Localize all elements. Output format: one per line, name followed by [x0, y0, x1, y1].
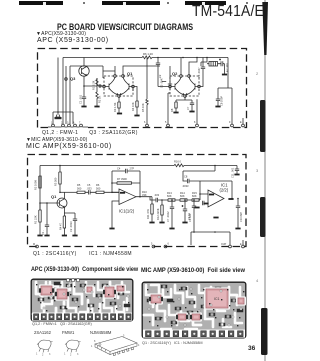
capacitor C5 [156, 58, 169, 89]
svg-text:R5: R5 [77, 183, 81, 187]
pcb component footprints [38, 298, 44, 301]
svg-text:R6: R6 [96, 183, 100, 187]
resistor R13 [167, 191, 175, 201]
transistor Q1 [40, 192, 67, 213]
svg-text:(2/2): (2/2) [220, 188, 229, 193]
resistor R3 [113, 97, 120, 113]
resistor R7 [117, 177, 132, 184]
svg-text:82K: 82K [192, 194, 197, 198]
node A [83, 85, 85, 87]
svg-text:3: 3 [77, 353, 79, 356]
svg-text:.0033: .0033 [182, 184, 189, 188]
APC transistor note [42, 130, 138, 136]
APC pcb component side view [30, 278, 134, 322]
connector pins row 2 [144, 121, 244, 127]
svg-text:R1 22K: R1 22K [34, 215, 38, 224]
svg-text:1: 1 [91, 345, 93, 348]
svg-text:C2 .0033: C2 .0033 [69, 221, 73, 232]
resistor R4 [131, 98, 138, 115]
ground [173, 112, 178, 114]
wire top bus [40, 165, 237, 167]
MIC AMP labels [26, 137, 87, 143]
svg-text:R2 100K: R2 100K [34, 180, 38, 190]
capacitor C2 [69, 213, 77, 235]
captions under pcbs [32, 322, 92, 326]
wire emitter [64, 213, 75, 216]
svg-text:.033: .033 [154, 193, 160, 197]
ground [169, 228, 174, 230]
APC dashed border [38, 49, 247, 128]
node rail [214, 231, 216, 233]
ground [222, 74, 227, 76]
ground [159, 222, 164, 224]
ground [81, 106, 86, 108]
ground [194, 207, 199, 209]
MIC AMP dashed border [28, 155, 247, 247]
node B [157, 57, 159, 59]
ground [213, 217, 218, 219]
ground [117, 113, 122, 115]
pcb edge connector pads [143, 330, 245, 338]
svg-text:1: 1 [64, 353, 66, 356]
connector pin M [33, 243, 38, 248]
wire left vertical [39, 166, 41, 211]
ground [215, 106, 220, 108]
wire inv input ic2 [200, 181, 208, 200]
junction pin [99, 85, 101, 87]
MIC AMP pcb foil side view [141, 281, 247, 339]
dual transistor Q2 [169, 75, 201, 98]
resistor R3 [54, 166, 62, 193]
wire q2 top feeds [181, 58, 207, 75]
ground [182, 222, 187, 224]
capacitor C7 [166, 199, 174, 228]
wire noninv down [112, 192, 119, 228]
pcb board outline [142, 282, 246, 338]
svg-text:33K: 33K [142, 193, 147, 197]
connector pins row 1 [48, 122, 88, 128]
svg-text:.033: .033 [87, 187, 93, 191]
wire q1 outer legs [133, 87, 137, 99]
node collector [59, 192, 61, 194]
capacitor C1 [41, 202, 49, 235]
svg-text:6: 6 [168, 243, 170, 246]
ground [134, 115, 139, 117]
svg-text:5: 5 [123, 335, 125, 338]
section heading [57, 22, 193, 32]
pcb board outline [31, 279, 133, 321]
op-amp IC1 (2/2) [208, 190, 224, 207]
capacitor C10 [236, 198, 243, 228]
model name TM-541A/E [192, 3, 264, 21]
capacitor C2 [158, 66, 172, 90]
ground [62, 235, 67, 237]
inductor L1 [207, 62, 220, 67]
node bus2 [214, 165, 216, 167]
wire mid verticals [58, 58, 66, 125]
wire left verticals to connector [63, 58, 103, 125]
resistor R2 [34, 176, 42, 190]
resistor R1 [92, 78, 99, 90]
resistor R16 [173, 160, 187, 167]
svg-text:C1 -: C1 - [41, 230, 45, 235]
svg-text:R7 390K: R7 390K [117, 177, 127, 181]
svg-text:C8: C8 [184, 175, 188, 179]
node bus-R3 [59, 165, 61, 167]
label R10 33K [142, 190, 147, 197]
svg-text:560: 560 [96, 187, 101, 191]
ground tap box [53, 111, 73, 124]
svg-text:C9 82P: C9 82P [188, 213, 192, 222]
ground [94, 106, 99, 108]
transistor Q3 [79, 66, 89, 76]
ground [37, 235, 42, 237]
dual transistor Q1 [103, 75, 135, 98]
svg-text:C7 .0022: C7 .0022 [166, 211, 170, 222]
wire top bus [63, 57, 228, 59]
svg-text:C4: C4 [117, 167, 121, 171]
package drawings [30, 334, 145, 360]
resistor R5 [77, 183, 89, 194]
wire ground rail bottom [191, 232, 230, 245]
resistor R4 [59, 216, 66, 235]
capacitor C8 [182, 171, 200, 188]
svg-text:82K: 82K [180, 194, 185, 198]
resistor R15 [187, 191, 200, 201]
APC labels [36, 31, 86, 37]
PCB section titles [31, 266, 138, 273]
svg-text:R4 47: R4 47 [59, 223, 63, 230]
resistor R14 [175, 191, 187, 201]
svg-text:R12 220K: R12 220K [156, 208, 160, 220]
capacitor C9 [188, 199, 196, 232]
svg-text:C10 82P: C10 82P [239, 212, 243, 222]
label IC1(2/2) [220, 183, 229, 193]
ground [189, 111, 194, 113]
node C [182, 57, 184, 59]
svg-text:IC1(1/2): IC1(1/2) [119, 209, 135, 214]
svg-text:2: 2 [42, 354, 44, 357]
capacitor C3 electrolytic [182, 199, 192, 222]
svg-text:4: 4 [138, 344, 140, 347]
top registration bar [19, 1, 63, 5]
pcb trace channels [146, 285, 153, 307]
node base [39, 202, 41, 204]
wire q3 collector chain [84, 58, 105, 94]
wire plus input ic2 [203, 203, 208, 205]
node D [196, 57, 198, 59]
capacitor C.033 series [154, 193, 168, 202]
capacitor C1 [79, 93, 87, 106]
svg-text:R11 47K: R11 47K [146, 209, 150, 219]
resistor R1 [34, 203, 42, 235]
svg-text:R16 0: R16 0 [174, 160, 181, 164]
wire bottom pins feeds [147, 88, 243, 124]
wire fb2 top [183, 166, 232, 199]
capacitor C4 [112, 167, 140, 174]
resistor R6 [96, 183, 119, 194]
connector pin E [240, 240, 244, 248]
wire q1 top feeds [103, 66, 160, 75]
resistor R2 [96, 86, 102, 106]
capacitor C11 [231, 166, 240, 179]
ground [109, 228, 114, 230]
ground [44, 235, 49, 237]
ground [234, 174, 239, 176]
transistor package 2SA1162 [36, 340, 53, 357]
svg-text:M: M [33, 243, 35, 246]
MIC AMP transistor note [33, 251, 132, 257]
wire right column [218, 58, 228, 96]
capacitor C5 [87, 183, 97, 195]
svg-text:C5: C5 [87, 183, 91, 187]
pcb trace channels [36, 282, 42, 308]
wire output ic2 [228, 198, 233, 200]
IC package NJM4558M [91, 335, 140, 356]
test point pin [65, 78, 68, 81]
capacitor C8 [216, 95, 224, 106]
svg-text:3: 3 [49, 353, 51, 356]
right edge binding marks [255, 0, 270, 361]
wire collector out [64, 191, 77, 193]
transistor package FMW1 [64, 340, 81, 357]
svg-text:1: 1 [36, 353, 38, 356]
ground [149, 222, 154, 224]
connector pin 6 [164, 243, 169, 248]
capacitor C3 [197, 58, 205, 87]
node inv2 [199, 193, 201, 195]
resistor R11 [146, 197, 153, 222]
op-amp IC1 (1/2) [119, 189, 136, 205]
pcb component footprints [147, 299, 153, 302]
svg-text:2: 2 [70, 354, 72, 357]
ground [72, 235, 77, 237]
resistor R5 [141, 58, 148, 125]
capacitor series plus [202, 201, 204, 205]
pcb highlighted components IC1 etc [204, 287, 230, 309]
node inv [111, 192, 113, 194]
svg-text:82K: 82K [167, 194, 172, 198]
ground [235, 228, 240, 230]
node fb [139, 196, 141, 198]
svg-text:R3 560: R3 560 [54, 177, 58, 186]
svg-text:C11 .001: C11 .001 [231, 167, 235, 178]
resistor R6 [140, 52, 160, 59]
page number [248, 345, 255, 352]
svg-text:Q1: Q1 [51, 194, 57, 199]
pcb highlighted components [39, 284, 54, 296]
package drawing labels [34, 330, 51, 335]
wire feedback stubs [112, 171, 140, 197]
capacitor C7 [186, 100, 194, 111]
pcb edge connector pads [32, 313, 132, 321]
resistor R8 [170, 97, 192, 112]
resistor R12 [156, 199, 163, 222]
svg-text:560: 560 [77, 187, 82, 191]
connector pin 5 [151, 243, 155, 248]
wire output [136, 197, 156, 200]
svg-text:IC1: IC1 [214, 297, 220, 301]
node E [206, 57, 208, 59]
capacitor C4 electrolytic [219, 59, 229, 75]
svg-text:OUP: OUP [221, 243, 227, 246]
connector pin OUP [221, 243, 231, 248]
svg-text:27P: 27P [130, 167, 135, 171]
svg-text:8: 8 [94, 340, 96, 343]
